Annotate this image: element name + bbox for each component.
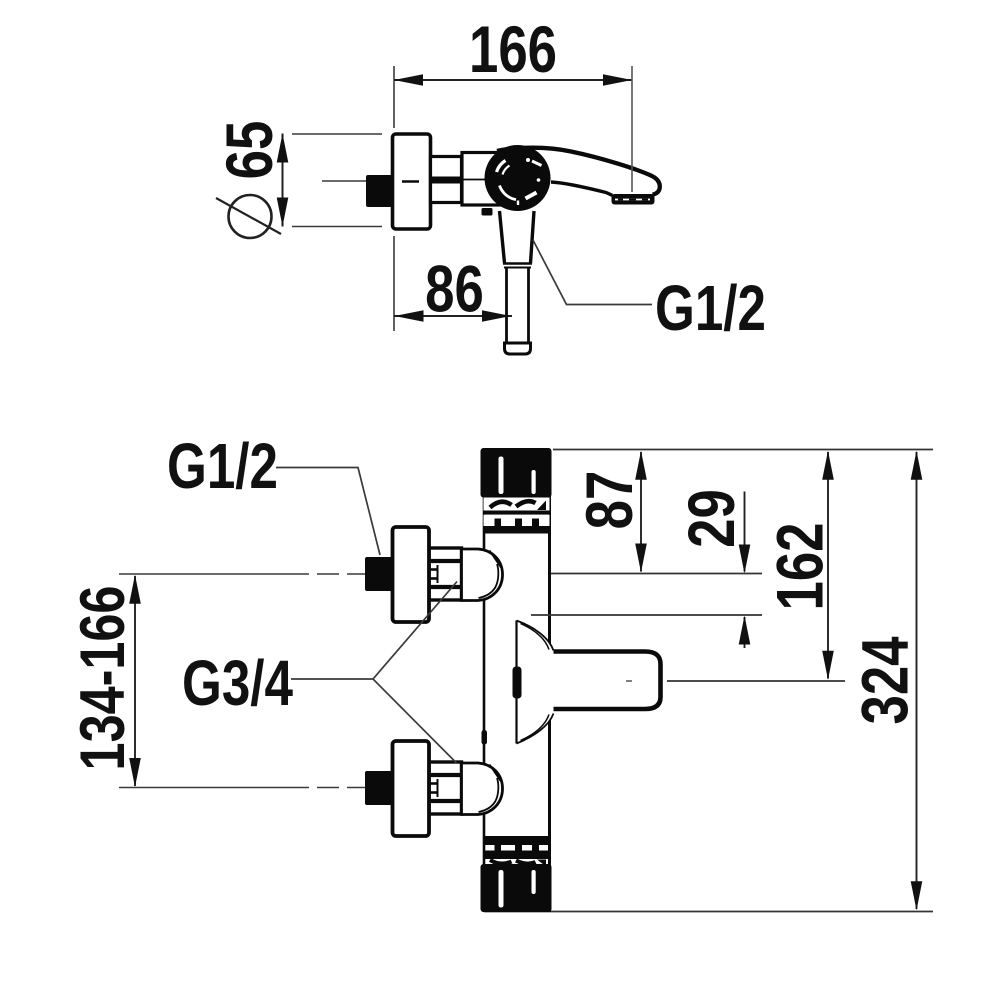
shower outlet pipe: [507, 268, 529, 344]
shower outlet cap: [505, 343, 531, 354]
mixer knob disc: [485, 145, 551, 211]
spout top edge: [497, 148, 660, 195]
knob highlight arcs: [497, 161, 506, 173]
upper wall flange: [393, 527, 430, 622]
dimension 87 text: [572, 471, 646, 530]
dimension 86 text: [425, 252, 484, 326]
svg-text:G1/2: G1/2: [167, 432, 278, 503]
dimension 29 lines: [744, 492, 746, 572]
svg-text:65: 65: [212, 121, 286, 180]
svg-text:87: 87: [572, 471, 646, 530]
svg-text:G3/4: G3/4: [182, 649, 293, 720]
extension line upper axis right: [551, 573, 762, 575]
dimension 86 line: [394, 315, 512, 317]
hex nut G1/2 (black): [366, 175, 392, 207]
leader line G3/4: [291, 582, 457, 764]
lever grip outline: [554, 652, 661, 710]
lower eccentric union threads: [429, 762, 462, 814]
lever handle (plan): [517, 621, 661, 744]
svg-text:86: 86: [425, 252, 484, 326]
centerline wall axis: [393, 66, 395, 128]
dimension 65 line: [282, 134, 284, 227]
body edge tick: [482, 730, 488, 745]
label G1/2 top: [655, 274, 766, 345]
dimension 162 line: [827, 452, 829, 679]
flange center dash: [402, 180, 419, 182]
dimension 166 line: [394, 79, 632, 81]
shower outlet neck: [500, 211, 535, 263]
dimension 324 text: [848, 636, 922, 724]
leader line G1/2 top: [533, 240, 652, 305]
label G1/2 bottom: [167, 432, 278, 503]
upper eccentric union threads: [429, 548, 462, 600]
lower union dome: [462, 763, 503, 815]
aerator: [612, 194, 655, 205]
extension line flange top: [292, 133, 382, 135]
dimension 87 line: [640, 452, 642, 572]
lever bell button tick: [513, 667, 522, 699]
svg-text:166: 166: [469, 12, 557, 86]
svg-text:134-166: 134-166: [68, 586, 139, 771]
knurled knob bottom (plan): [481, 836, 552, 912]
extension line lever axis: [667, 680, 845, 682]
knurled knob top (plan): [481, 448, 552, 534]
extension line body top: [553, 449, 933, 451]
extension line lever top: [531, 614, 762, 616]
centerline lower connection: [119, 787, 309, 789]
lever bell top flare: [517, 621, 554, 651]
dimension 166 text: [469, 12, 557, 86]
upper union dome: [462, 549, 503, 601]
dimension 65 text (rotated): [212, 121, 286, 180]
svg-text:29: 29: [674, 489, 748, 548]
svg-text:162: 162: [763, 522, 837, 610]
union pipe section A: [431, 157, 462, 203]
dimension 134-166 line: [134, 576, 136, 786]
extension line body bottom: [484, 911, 933, 913]
svg-text:324: 324: [848, 636, 922, 724]
label G3/4: [182, 649, 293, 720]
wall flange: [393, 134, 431, 229]
dimension 162 text: [763, 522, 837, 610]
svg-text:G1/2: G1/2: [655, 274, 766, 345]
centerline stub to nut: [322, 180, 366, 182]
extension line spout axis: [631, 66, 633, 192]
leader line G1/2 bottom: [276, 468, 380, 556]
lever bell bottom flare: [517, 714, 554, 744]
spout underside edge: [551, 182, 612, 195]
centerline upper connection: [119, 573, 309, 575]
dimension 29 text: [674, 489, 748, 548]
lower hex nut G1/2 (black): [365, 771, 392, 805]
spout body: [497, 148, 660, 196]
dimension 324 line: [916, 452, 918, 909]
diameter symbol: [229, 195, 272, 238]
extension line flange bottom: [292, 226, 382, 228]
union pipe section B: [462, 153, 506, 206]
temperature button: [482, 208, 493, 216]
faucet body: [484, 449, 550, 912]
dimension 134-166 text: [68, 586, 139, 771]
lever bell left edge: [515, 621, 517, 744]
lower wall flange: [393, 741, 430, 836]
upper hex nut G1/2 (black): [365, 557, 392, 591]
